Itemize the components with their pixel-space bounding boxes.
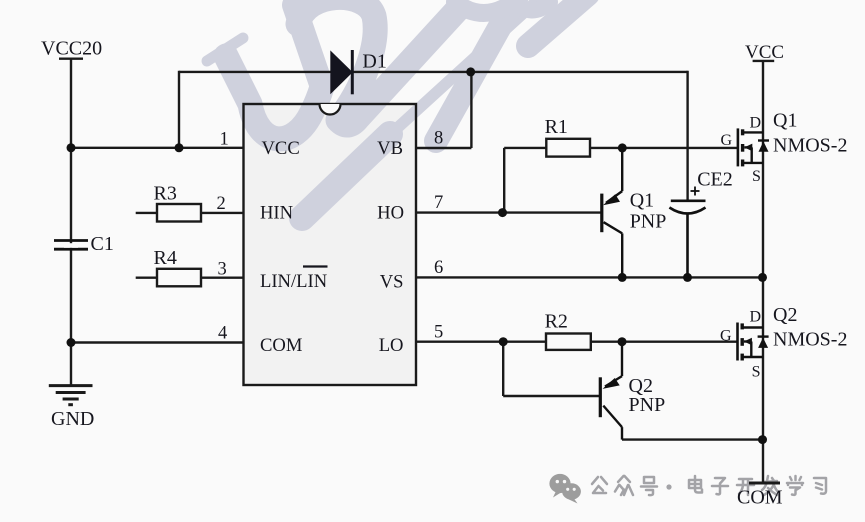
svg-text:NMOS-2: NMOS-2: [773, 135, 847, 157]
svg-text:8: 8: [434, 129, 443, 149]
svg-text:S: S: [752, 364, 761, 381]
svg-text:VS: VS: [380, 272, 404, 293]
svg-text:R3: R3: [154, 183, 177, 205]
svg-text:VCC: VCC: [262, 138, 300, 159]
svg-text:COM: COM: [260, 335, 302, 356]
svg-text:CE2: CE2: [697, 169, 733, 191]
svg-text:LO: LO: [379, 335, 404, 356]
svg-text:PNP: PNP: [629, 394, 666, 416]
svg-text:GND: GND: [51, 408, 94, 430]
svg-text:R1: R1: [545, 116, 568, 138]
svg-text:LIN/LIN: LIN/LIN: [260, 271, 327, 292]
svg-text:PNP: PNP: [630, 211, 667, 233]
svg-text:1: 1: [220, 129, 229, 149]
svg-text:D: D: [750, 309, 762, 326]
svg-text:Q2: Q2: [773, 304, 797, 326]
svg-text:S: S: [752, 168, 761, 185]
svg-text:NMOS-2: NMOS-2: [773, 329, 847, 351]
svg-text:VCC: VCC: [745, 42, 784, 63]
svg-text:5: 5: [434, 322, 443, 342]
svg-text:R2: R2: [545, 311, 568, 333]
svg-text:R4: R4: [154, 247, 177, 269]
svg-text:HIN: HIN: [260, 203, 293, 224]
svg-text:C1: C1: [91, 233, 114, 255]
svg-text:D: D: [750, 115, 762, 132]
svg-text:Q1: Q1: [773, 110, 797, 132]
svg-text:7: 7: [434, 193, 443, 213]
svg-text:6: 6: [434, 258, 443, 278]
svg-text:G: G: [720, 328, 732, 345]
svg-text:G: G: [721, 132, 733, 149]
svg-text:VB: VB: [377, 138, 403, 159]
svg-text:2: 2: [217, 194, 226, 214]
svg-text:3: 3: [218, 259, 227, 279]
svg-text:Q1: Q1: [630, 190, 654, 212]
svg-text:4: 4: [218, 324, 227, 344]
svg-text:D1: D1: [362, 51, 386, 73]
svg-text:COM: COM: [737, 487, 783, 509]
svg-text:HO: HO: [377, 203, 404, 224]
svg-text:VCC20: VCC20: [41, 38, 102, 60]
